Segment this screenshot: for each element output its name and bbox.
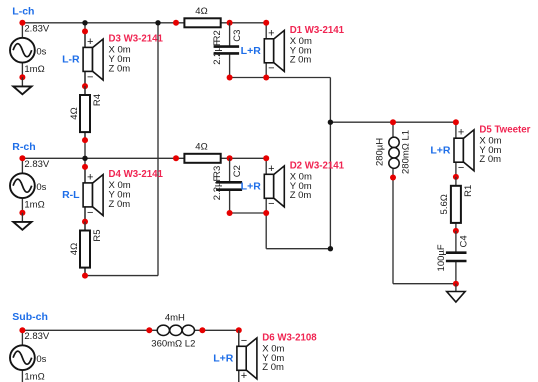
D2 name label	[290, 161, 345, 172]
ground (tweeter branch)	[447, 284, 465, 302]
V2 (R-ch) value 1m&#937;	[24, 200, 44, 211]
wire R-ch rail	[22, 157, 266, 159]
D3 Z position	[109, 63, 131, 74]
net label Sub-ch	[12, 311, 48, 323]
svg-text:0s: 0s	[36, 354, 46, 365]
svg-text:−: −	[458, 162, 464, 174]
label L+R (D2)	[241, 181, 262, 193]
svg-text:2.2µF: 2.2µF	[212, 40, 223, 65]
resistor R1	[451, 177, 461, 231]
node dot D2 bottom	[263, 210, 269, 216]
node dot C4 bottom	[453, 281, 459, 287]
voltage source V3 (Sub-ch)	[10, 330, 35, 382]
V1 (L-ch) value 1m&#937;	[24, 64, 44, 75]
svg-text:+: +	[268, 27, 274, 39]
R4 designator	[92, 94, 103, 106]
D1 name label	[290, 25, 345, 36]
R5 designator	[92, 229, 103, 241]
voltage source V2 (R-ch)	[10, 158, 35, 213]
svg-text:2.83V: 2.83V	[24, 159, 49, 170]
svg-text:+: +	[458, 127, 464, 139]
node dot R2 left	[173, 20, 179, 26]
V3 (Sub-ch) value 2.83V	[24, 331, 49, 342]
R2 designator	[212, 30, 223, 42]
D4 Z position	[109, 199, 131, 210]
C2 designator	[232, 165, 243, 177]
svg-text:−: −	[268, 198, 274, 210]
node dot D5 top	[453, 119, 459, 125]
node dot R4 bottom	[82, 137, 88, 143]
svg-text:4Ω: 4Ω	[195, 6, 207, 17]
inductor L1	[389, 122, 399, 177]
svg-text:Z 0m: Z 0m	[479, 154, 501, 165]
node dot D2 top	[263, 155, 269, 161]
node dot V2 (R-ch) bottom	[19, 210, 25, 216]
svg-text:4Ω: 4Ω	[69, 107, 80, 119]
L1 value 280&#181;H	[375, 138, 386, 166]
wire summed node column	[329, 78, 331, 249]
svg-text:2.83V: 2.83V	[24, 331, 49, 342]
D4 name label	[109, 169, 164, 180]
svg-text:R-ch: R-ch	[12, 141, 35, 153]
R2 value 4&#937;	[195, 6, 207, 17]
inductor L2	[157, 325, 194, 335]
svg-text:2.2µF: 2.2µF	[212, 176, 223, 201]
R1 designator	[463, 185, 474, 197]
svg-text:Z 0m: Z 0m	[290, 190, 312, 201]
label L+R (D5)	[430, 145, 451, 157]
capacitor C3	[214, 23, 240, 78]
svg-text:280mΩ L1: 280mΩ L1	[401, 130, 412, 174]
V2 (R-ch) value 2.83V	[24, 159, 49, 170]
D1 Y position	[290, 45, 312, 56]
D3 Y position	[109, 54, 131, 65]
svg-text:1mΩ: 1mΩ	[24, 372, 44, 382]
D5 name label	[479, 125, 530, 136]
svg-text:R4: R4	[92, 94, 103, 106]
svg-text:0s: 0s	[36, 182, 46, 193]
speaker driver D3	[83, 31, 103, 86]
svg-text:L-ch: L-ch	[12, 6, 34, 18]
D3 X position	[109, 45, 131, 56]
D6 Y position	[262, 353, 284, 364]
voltage source V1 (L-ch)	[10, 23, 35, 78]
node dot D6 top	[236, 327, 242, 333]
svg-text:R1: R1	[463, 185, 474, 197]
node dot D3 top	[82, 28, 88, 34]
V1 (L-ch) value 0s	[36, 46, 46, 57]
capacitor C2	[216, 158, 242, 213]
node dot C2 bottom	[227, 210, 233, 216]
L2 value 4mH	[165, 313, 185, 324]
speaker driver D5	[454, 122, 474, 177]
V3 (Sub-ch) value 1m&#937;	[24, 372, 44, 382]
D6 name label	[262, 333, 317, 344]
wire bridge link column	[157, 23, 159, 276]
R1 value 5.6&#937;	[439, 194, 450, 214]
svg-text:+: +	[87, 171, 93, 183]
D1 X position	[290, 36, 312, 47]
svg-text:Z 0m: Z 0m	[290, 55, 312, 66]
svg-text:5.6Ω: 5.6Ω	[439, 194, 450, 214]
resistor R2	[184, 18, 220, 27]
node dot L2 left	[146, 327, 152, 333]
svg-text:−: −	[87, 71, 93, 83]
svg-text:D3 W3-2141: D3 W3-2141	[109, 34, 164, 45]
node dot D5/R1	[453, 174, 459, 180]
node dot D4/R5	[82, 219, 88, 225]
node dot R3/C2	[227, 155, 233, 161]
L1 value/designator 280m&#937; L1	[401, 130, 412, 174]
D4 X position	[109, 180, 131, 191]
speaker driver D4	[83, 167, 103, 222]
V2 (R-ch) value 0s	[36, 182, 46, 193]
label L+R (D6)	[213, 353, 234, 365]
junction summed node top	[328, 120, 333, 125]
svg-text:100µF: 100µF	[436, 244, 447, 271]
svg-text:4Ω: 4Ω	[195, 141, 207, 152]
svg-text:L-R: L-R	[62, 54, 80, 66]
ground (V1 (L-ch))	[13, 77, 31, 94]
node dot L1 bottom	[390, 175, 396, 181]
R3 designator	[212, 166, 223, 178]
node dot V1 (L-ch) top	[19, 20, 25, 26]
svg-text:L+R: L+R	[213, 353, 234, 365]
net label L-ch	[12, 6, 34, 18]
L2 value/designator 360m&#937; L2	[151, 338, 195, 349]
D5 X position	[479, 136, 501, 147]
node dot V3 (Sub-ch) top	[19, 327, 25, 333]
label L-R (D3)	[62, 54, 80, 66]
junction bridge link / L-ch rail	[155, 20, 160, 25]
svg-text:1mΩ: 1mΩ	[24, 64, 44, 75]
node dot V1 (L-ch) bottom	[19, 74, 25, 80]
D6 X position	[262, 344, 284, 355]
svg-text:280µH: 280µH	[375, 138, 386, 166]
D5 Y position	[479, 145, 501, 156]
svg-text:−: −	[241, 335, 247, 347]
node dot R2/C3	[227, 20, 233, 26]
svg-text:C3: C3	[232, 30, 243, 42]
capacitor C4	[446, 231, 467, 284]
svg-text:360mΩ L2: 360mΩ L2	[151, 338, 195, 349]
svg-text:+: +	[87, 36, 93, 48]
node dot L2 right	[199, 327, 205, 333]
svg-text:4Ω: 4Ω	[69, 243, 80, 255]
svg-text:−: −	[268, 63, 274, 75]
svg-text:1mΩ: 1mΩ	[24, 200, 44, 211]
D2 X position	[290, 172, 312, 183]
wire Sub-ch rail	[22, 329, 238, 331]
D6 Z position	[262, 362, 284, 373]
speaker driver D6	[237, 330, 257, 382]
junction summed node bottom	[328, 246, 333, 251]
svg-text:D2 W3-2141: D2 W3-2141	[290, 161, 345, 172]
svg-text:Z 0m: Z 0m	[109, 63, 131, 74]
svg-text:D1 W3-2141: D1 W3-2141	[290, 25, 345, 36]
R3 value 4&#937;	[195, 141, 207, 152]
D2 Z position	[290, 190, 312, 201]
svg-text:D6 W3-2108: D6 W3-2108	[262, 333, 317, 344]
svg-text:D4 W3-2141: D4 W3-2141	[109, 169, 164, 180]
resistor R3	[184, 154, 220, 163]
C3 value 2.2&#181;F	[212, 40, 223, 65]
svg-text:D5 Tweeter: D5 Tweeter	[479, 125, 530, 136]
svg-text:Z 0m: Z 0m	[109, 199, 131, 210]
label L+R (D1)	[241, 45, 262, 57]
node dot L1 top	[390, 119, 396, 125]
node dot R3 left	[173, 155, 179, 161]
svg-text:Sub-ch: Sub-ch	[12, 311, 48, 323]
node dot D3/R4	[82, 83, 88, 89]
label R-L (D4)	[62, 189, 80, 201]
wire D3/R4/D4/R5 column	[84, 23, 86, 276]
node dot V2 (R-ch) top	[19, 155, 25, 161]
svg-text:C4: C4	[459, 235, 470, 247]
C4 designator	[459, 235, 470, 247]
wire L1 bottom return	[393, 178, 456, 284]
D1 Z position	[290, 55, 312, 66]
C3 designator	[232, 30, 243, 42]
D5 Z position	[479, 154, 501, 165]
svg-text:R-L: R-L	[62, 189, 80, 201]
node dot R5 bottom	[82, 273, 88, 279]
net label R-ch	[12, 141, 35, 153]
wire tweeter rail	[330, 121, 456, 123]
svg-text:L+R: L+R	[241, 45, 262, 57]
node dot D4 top	[82, 164, 88, 170]
wire D1 bottom rail	[230, 77, 331, 79]
wire L-ch rail	[22, 22, 266, 24]
svg-text:+: +	[268, 163, 274, 175]
wire D6 column	[238, 330, 240, 382]
node dot R1/C4	[453, 228, 459, 234]
node dot D1 bottom	[263, 75, 269, 81]
speaker driver D2	[264, 158, 284, 213]
svg-text:−: −	[87, 207, 93, 219]
D4 Y position	[109, 190, 131, 201]
C4 value 100&#181;F	[436, 244, 447, 271]
svg-text:+: +	[241, 370, 247, 382]
resistor R5	[80, 222, 90, 276]
resistor R4	[80, 86, 90, 140]
V3 (Sub-ch) value 0s	[36, 354, 46, 365]
svg-text:0s: 0s	[36, 46, 46, 57]
R4 value 4&#937;	[69, 107, 80, 119]
wire C2/D2 bottom	[230, 212, 267, 214]
wire D2 to summed node	[266, 248, 330, 250]
wire R5 bottom link	[85, 275, 158, 277]
svg-text:L+R: L+R	[430, 145, 451, 157]
ground (V2 (R-ch))	[13, 213, 31, 230]
svg-text:C2: C2	[232, 165, 243, 177]
svg-text:2.83V: 2.83V	[24, 24, 49, 35]
svg-text:R5: R5	[92, 229, 103, 241]
D2 Y position	[290, 181, 312, 192]
junction R4 / R-ch rail	[82, 156, 87, 161]
node dot C3 bottom	[227, 75, 233, 81]
svg-text:4mH: 4mH	[165, 313, 185, 324]
junction L-ch / D3	[82, 20, 87, 25]
C2 value 2.2&#181;F	[212, 176, 223, 201]
V1 (L-ch) value 2.83V	[24, 24, 49, 35]
D3 name label	[109, 34, 164, 45]
speaker driver D1	[264, 23, 284, 78]
wire D2 down	[265, 213, 267, 249]
svg-text:Z 0m: Z 0m	[262, 362, 284, 373]
node dot D1 top	[263, 20, 269, 26]
svg-text:L+R: L+R	[241, 181, 262, 193]
R5 value 4&#937;	[69, 243, 80, 255]
